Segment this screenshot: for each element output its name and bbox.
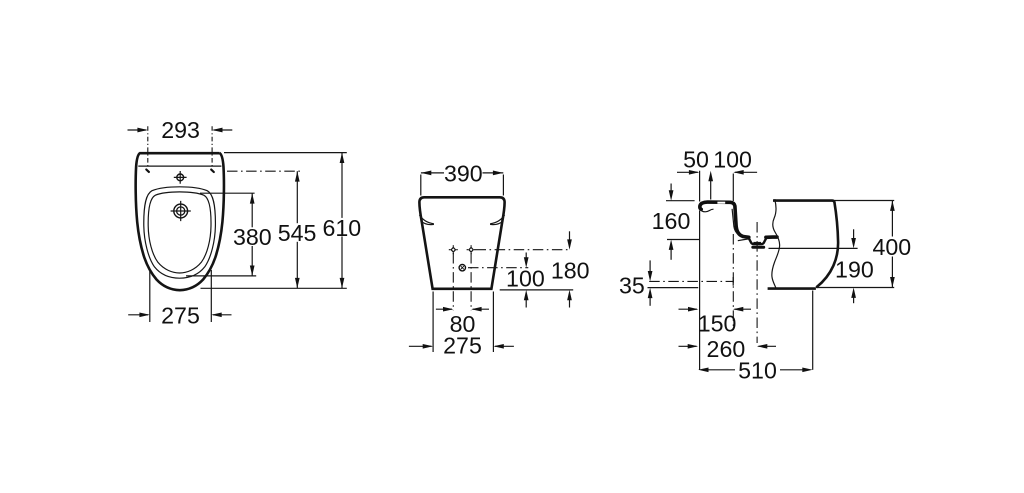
dimension 80 arrows <box>436 307 489 312</box>
ref line 160 top <box>666 200 695 202</box>
bidet body outline (front) <box>419 197 504 288</box>
dimension 610 line and arrows <box>340 153 345 289</box>
dimension 275 extension left <box>149 271 151 322</box>
svg-text:275: 275 <box>161 302 200 328</box>
floor extension line (front) <box>500 289 574 291</box>
ref line 190 top <box>769 247 858 249</box>
rim and trap section profile <box>700 202 777 237</box>
dimension 275 (front) extension right <box>492 292 494 353</box>
back right edge <box>816 202 838 287</box>
dimension 293 arrows <box>128 128 233 133</box>
back bottom edge <box>768 287 816 290</box>
ref line 400 top <box>834 200 894 202</box>
hole axis right (dash-dot vertical) <box>470 253 472 311</box>
svg-text:100: 100 <box>713 146 752 172</box>
fixing hole diamond left <box>449 245 458 254</box>
svg-text:35: 35 <box>619 273 645 299</box>
svg-text:510: 510 <box>738 358 777 384</box>
centerline 545 top (dash-dot) <box>227 170 303 172</box>
dimension 275 extension right <box>210 270 212 322</box>
dimension 390 line and arrows <box>421 171 503 176</box>
ref line bottom 545/610 <box>201 287 347 289</box>
svg-text:190: 190 <box>835 256 874 282</box>
svg-text:160: 160 <box>652 208 691 234</box>
fixing hole mark right <box>211 170 214 172</box>
dimension 150 arrows <box>679 307 752 312</box>
shelf line <box>138 165 221 167</box>
dimension 390 extension right <box>502 175 504 196</box>
ref line 610 top <box>224 152 347 154</box>
floor line left (35 bottom ref) <box>648 287 699 289</box>
dimension 275 (front) arrows <box>409 344 514 349</box>
holes centerline (dash-dot) <box>476 249 570 251</box>
svg-text:100: 100 <box>506 266 545 292</box>
ref line 160 bottom <box>667 239 700 241</box>
ref line 400/190 bottom <box>816 287 894 289</box>
inlet centerline (dash-dot, 35 top ref) <box>649 280 733 282</box>
dimension 545 line and arrows <box>295 171 300 288</box>
dimension 293 extension left <box>147 126 149 166</box>
rim lip underside line <box>702 209 714 212</box>
dimension 190 arrows <box>851 229 856 303</box>
dimension 275 arrows <box>128 312 231 317</box>
dimension 380 line and arrows <box>250 193 255 276</box>
ref line 380 bottom <box>186 275 256 277</box>
bowl outer rim <box>144 187 216 278</box>
drain circle <box>459 265 465 271</box>
centerline cross tick <box>732 277 734 286</box>
svg-text:150: 150 <box>698 310 737 336</box>
break line <box>772 199 780 288</box>
svg-text:293: 293 <box>161 117 200 143</box>
dimension 390 extension left <box>420 175 422 196</box>
dimension 260 arrows <box>679 344 777 349</box>
svg-text:545: 545 <box>278 220 317 246</box>
bowl wall inner line <box>732 209 747 237</box>
svg-text:50: 50 <box>683 146 709 172</box>
hole axis left (dash-dot vertical) <box>452 253 454 311</box>
svg-text:275: 275 <box>443 333 482 359</box>
rim collar curve left <box>419 215 434 225</box>
bowl underside line <box>738 239 749 241</box>
faucet axis (dash-dot) <box>732 234 734 330</box>
fixing hole mark left <box>146 170 149 172</box>
faucet axis (solid top) <box>732 174 734 202</box>
dimension 180 arrows <box>567 231 572 307</box>
overflow axis line <box>710 180 712 199</box>
dimension 293 extension right <box>211 126 213 166</box>
dimension 100 arrows <box>524 253 529 308</box>
fixing hole diamond right <box>467 245 476 254</box>
dimension 400 line and arrows <box>890 201 895 288</box>
drain centerline (dash-dot) <box>468 267 528 269</box>
svg-text:180: 180 <box>551 258 590 284</box>
back top edge <box>773 201 834 203</box>
rim collar curve right <box>490 215 505 225</box>
bidet body outline (plan) <box>136 153 224 290</box>
svg-text:380: 380 <box>233 224 272 250</box>
rim notch (white slot) <box>717 202 725 204</box>
dimension 510 line and arrows <box>698 367 813 372</box>
drain pot outline <box>749 238 767 244</box>
small drill target <box>174 171 187 184</box>
svg-text:400: 400 <box>872 234 911 260</box>
ref line 380 top <box>200 192 255 194</box>
drain axis (dash-dot) <box>756 222 758 343</box>
dimension 160 arrows <box>669 184 674 260</box>
dimension 510 extension right <box>812 291 814 370</box>
dimension 35 arrows <box>648 260 653 305</box>
faucet drill target <box>171 201 191 221</box>
dimension 275 (front) extension left <box>432 292 434 353</box>
drain pot flange <box>751 246 765 249</box>
extension rim front edge <box>699 171 701 370</box>
svg-text:610: 610 <box>322 215 361 241</box>
svg-text:390: 390 <box>444 161 483 187</box>
bowl inner rim <box>148 192 211 273</box>
dimension 50/100 line and arrows <box>677 170 757 181</box>
